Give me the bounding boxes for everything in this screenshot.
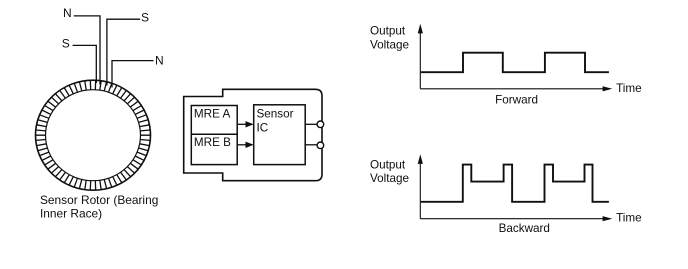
forward time axis <box>420 86 612 91</box>
svg-text:Voltage: Voltage <box>370 172 409 185</box>
lead wire from S left <box>73 45 97 83</box>
forward output waveform <box>421 53 609 72</box>
svg-text:Output: Output <box>370 25 406 38</box>
sensor housing outline <box>184 89 322 180</box>
signal arrow MRE B to IC <box>237 142 254 148</box>
rotor teeth hatching <box>36 80 151 190</box>
svg-text:Time: Time <box>616 212 642 225</box>
svg-text:Voltage: Voltage <box>370 38 409 51</box>
svg-text:N: N <box>63 6 72 20</box>
svg-text:Inner Race): Inner Race) <box>40 207 102 221</box>
Sensor IC box U1 <box>254 105 306 165</box>
svg-text:S: S <box>141 11 149 25</box>
svg-text:IC: IC <box>257 122 269 135</box>
output terminal 1 <box>317 121 324 128</box>
svg-text:Output: Output <box>370 159 406 172</box>
MRE element box <box>191 106 237 165</box>
svg-text:MRE B: MRE B <box>194 136 231 149</box>
svg-text:N: N <box>155 54 164 68</box>
lead wire from N top-left <box>74 16 100 85</box>
lead wire from S top-right <box>107 19 140 85</box>
svg-text:Sensor Rotor (Bearing: Sensor Rotor (Bearing <box>40 193 158 207</box>
svg-text:Sensor: Sensor <box>257 108 294 121</box>
svg-text:S: S <box>62 37 70 51</box>
output wire 2 <box>305 144 317 146</box>
sensor rotor inner ring <box>46 90 141 181</box>
forward voltage axis <box>418 24 423 89</box>
svg-text:Forward: Forward <box>495 94 538 107</box>
svg-text:Time: Time <box>616 82 642 95</box>
output terminal 2 <box>317 142 324 149</box>
signal arrow MRE A to IC <box>237 121 254 127</box>
svg-text:MRE A: MRE A <box>194 108 231 121</box>
backward time axis <box>420 216 612 221</box>
svg-text:Backward: Backward <box>499 222 550 235</box>
backward voltage axis <box>418 154 423 219</box>
lead wire from N right <box>112 61 154 88</box>
MRE A / MRE B divider <box>191 133 237 135</box>
sensor rotor outer ring <box>36 80 151 190</box>
backward output waveform <box>421 165 609 202</box>
output wire 1 <box>305 123 317 125</box>
